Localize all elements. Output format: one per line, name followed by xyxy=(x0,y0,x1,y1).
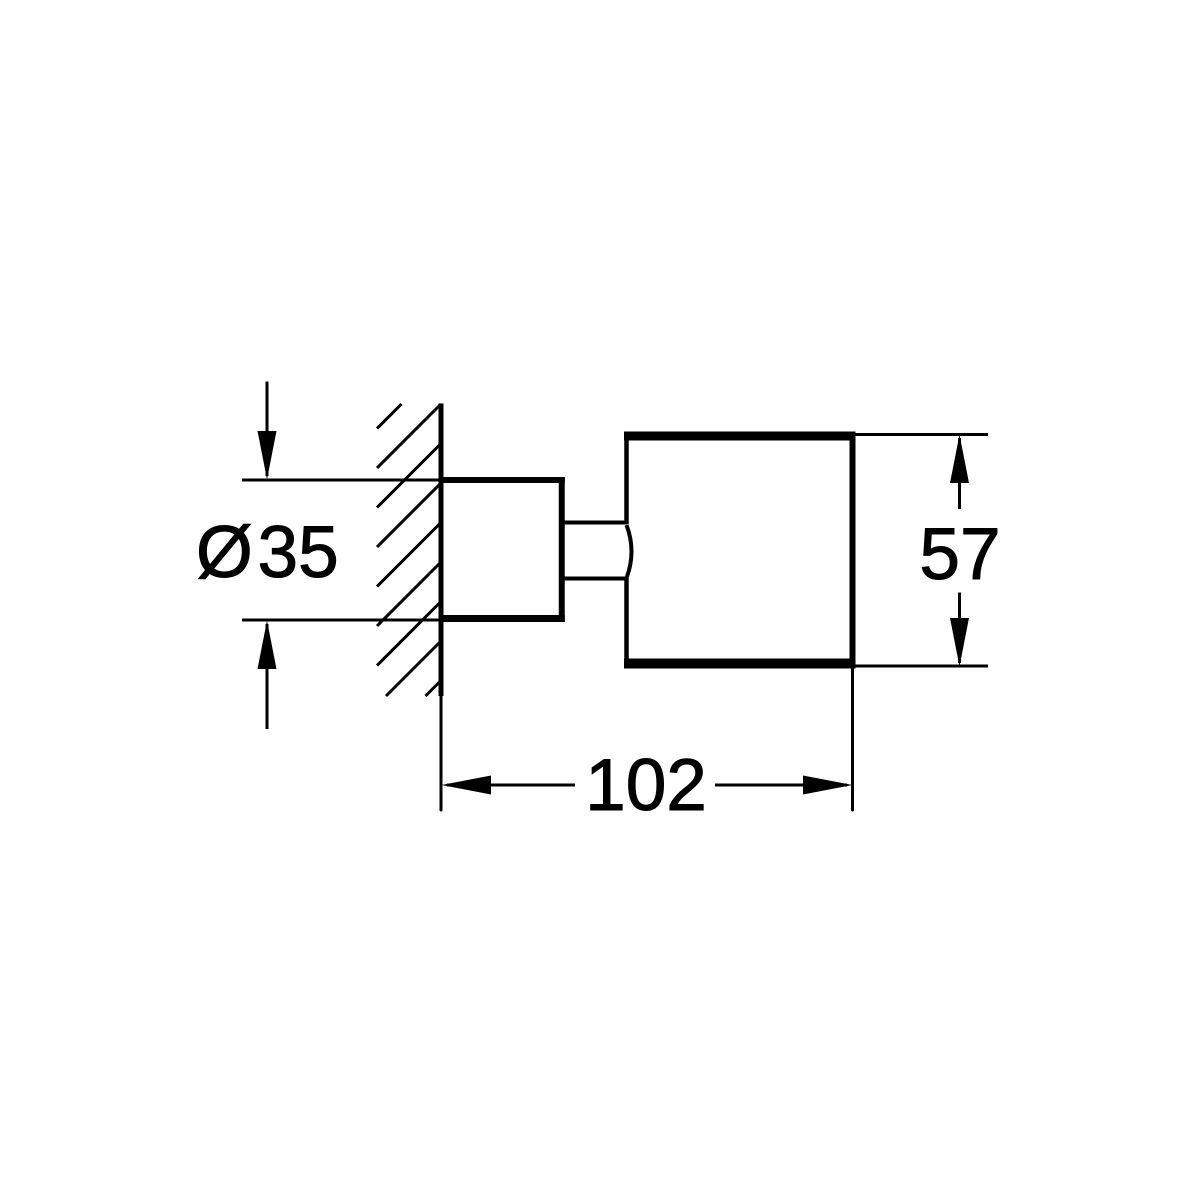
cup left edge lower xyxy=(624,578,629,668)
extension line 57 top xyxy=(854,433,988,436)
cup left edge upper xyxy=(624,432,629,525)
dimension line Ø35 lower segment xyxy=(266,624,269,729)
extension line upper Ø35 xyxy=(242,479,441,482)
neck upper line xyxy=(561,521,627,525)
extension line 57 bottom xyxy=(854,665,988,668)
cup bottom edge xyxy=(624,659,856,669)
arrowhead 102 left xyxy=(442,776,492,795)
extension line 102 left xyxy=(440,696,443,810)
wall line xyxy=(439,404,444,697)
svg-text:102: 102 xyxy=(585,745,707,826)
dimension line 57 upper segment xyxy=(958,438,961,509)
arrowhead 57 down xyxy=(950,618,969,667)
dimension line 57 lower segment xyxy=(958,593,961,664)
arrowhead 57 up xyxy=(950,435,969,484)
svg-text:Ø: Ø xyxy=(196,512,253,593)
arrowhead 102 right xyxy=(803,776,853,795)
svg-text:57: 57 xyxy=(919,514,1000,595)
extension line 102 right xyxy=(851,668,854,810)
arrowhead Ø35 up xyxy=(258,621,277,670)
mount flange xyxy=(441,477,565,622)
svg-text:35: 35 xyxy=(258,512,339,593)
ball joint arc xyxy=(627,525,632,578)
wall hatching xyxy=(377,404,441,696)
cup right edge xyxy=(850,432,856,669)
neck lower line xyxy=(561,577,627,581)
cup top edge xyxy=(624,432,856,441)
arrowhead Ø35 down xyxy=(258,431,277,480)
dimension line Ø35 upper segment xyxy=(266,382,269,477)
extension line lower Ø35 xyxy=(242,619,441,622)
dimension line 102 right segment xyxy=(715,784,847,787)
dimension line 102 left segment xyxy=(447,784,575,787)
